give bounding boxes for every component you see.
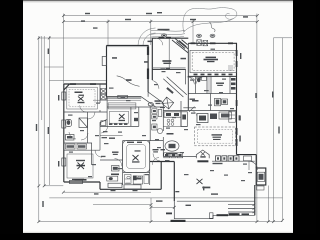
pantry corner diagonal bbox=[189, 107, 195, 112]
kitchen island bbox=[197, 114, 208, 123]
cooktop circles bbox=[167, 119, 174, 125]
bath fixtures left wing bbox=[66, 118, 88, 140]
partition x=210.5 lower bbox=[210, 94, 212, 111]
right dim vertical x=282.5 bbox=[282, 38, 284, 221]
lanai west wall x=188.3 bbox=[187, 43, 189, 110]
left wing top wall window chunks bbox=[70, 83, 76, 85]
bottom long dim y=221.6 bbox=[39, 221, 283, 223]
WIC below master bbox=[133, 176, 143, 184]
revision cloud curve bbox=[183, 8, 237, 33]
garage right wall hatch upper bbox=[147, 47, 149, 56]
foyer texts bbox=[155, 100, 162, 102]
garage S-leader bbox=[117, 76, 140, 87]
door arc master west bbox=[115, 159, 122, 167]
door arc sitting bbox=[153, 154, 160, 161]
partition x=207 bbox=[206, 76, 208, 93]
hall marks left of master bbox=[101, 126, 107, 133]
laundry fixtures bbox=[101, 89, 107, 100]
wall x=174.3 to patio bbox=[173, 162, 175, 202]
dim text at wall bbox=[175, 191, 179, 192]
garage bottom double wall line bbox=[107, 97, 142, 99]
patio door arc bbox=[249, 161, 258, 170]
label bubbles row bbox=[162, 34, 215, 38]
partition x=91.5 bbox=[91, 143, 93, 165]
entry porch bottom wall bbox=[152, 68, 185, 70]
patio steps lines bbox=[228, 204, 255, 206]
cloud bottom edge bbox=[184, 19, 234, 33]
patio fan X bbox=[197, 179, 203, 184]
garage text top bbox=[112, 57, 117, 59]
door arcs bath bbox=[69, 132, 76, 139]
texts left of master bbox=[112, 152, 119, 153]
master west wall bbox=[122, 141, 124, 185]
east closet fixtures column bbox=[231, 78, 236, 90]
sitting room east wall x=161.2 bbox=[160, 162, 162, 190]
wall y=93.5 bbox=[188, 93, 236, 95]
walk label bbox=[158, 29, 170, 31]
closet shelves bbox=[66, 144, 87, 149]
west wall left wing bbox=[63, 84, 65, 182]
porch dim y=67.8 bbox=[152, 67, 185, 69]
bar cabinets row bbox=[164, 153, 183, 158]
walk contour lines bbox=[151, 29, 185, 32]
window below bbq bbox=[257, 186, 265, 190]
extension x=150.8 bbox=[150, 20, 152, 46]
bottom dim y=192.2 bbox=[63, 191, 151, 193]
porch east wall x=185.6 bbox=[185, 69, 187, 84]
patio outline step bbox=[174, 201, 255, 219]
entry wall label bbox=[159, 37, 165, 39]
garage right wall hatch lower bbox=[147, 69, 149, 80]
left dim rung y=80.5 bbox=[49, 80, 106, 82]
BR2 east wall x=130.9 bbox=[130, 107, 132, 126]
bottom connector x=151 bbox=[150, 198, 152, 222]
step wall x=100 bbox=[99, 182, 101, 189]
entry porch top wall bbox=[152, 37, 188, 39]
closet blob right of BR2 bbox=[134, 118, 138, 121]
nook west wall bbox=[162, 137, 164, 157]
pantry bbox=[219, 112, 232, 119]
right dim header y=37.8 bbox=[274, 37, 293, 39]
garage top wall bbox=[107, 44, 149, 46]
pool bottom beam dashes bbox=[194, 74, 233, 76]
kitchen counter wall x=181 bbox=[180, 101, 182, 127]
porch texts bbox=[162, 60, 171, 62]
east wall slider hatches bbox=[236, 50, 238, 146]
bbq outcrop bbox=[256, 168, 266, 185]
porch inner door arc bbox=[156, 38, 163, 45]
driveway arcs bbox=[138, 28, 156, 46]
left wing top wall bbox=[64, 83, 107, 85]
left dim vertical x=38.8 bbox=[38, 36, 40, 222]
master east wall bbox=[149, 141, 151, 185]
water heater circle bbox=[157, 128, 162, 133]
bottom dim y=207.2 short bbox=[151, 206, 174, 208]
wall y=110.5 kitchen to east bbox=[163, 110, 236, 112]
patio east wall upper bbox=[255, 155, 257, 168]
cabinets east wall bbox=[229, 111, 236, 122]
right dim vertical x=273.5 bbox=[273, 38, 275, 222]
east wall (lanai+family) bbox=[236, 43, 238, 154]
linen blobs left of master bbox=[112, 166, 120, 172]
sitting room south wall y=161.5 bbox=[150, 161, 175, 163]
leader squiggle bbox=[210, 22, 216, 32]
vanity BA2 bbox=[107, 176, 118, 181]
pool double rectangle bbox=[190, 50, 236, 72]
patio slab line y=201.2 bbox=[177, 200, 255, 202]
patio floor line y=161.2 bbox=[212, 160, 255, 162]
partition x=230 bbox=[229, 76, 231, 93]
garage top wall inner line bbox=[107, 46, 149, 48]
BR2 west wall x=107.1 bbox=[106, 97, 108, 127]
patio east wall lower bbox=[254, 185, 256, 215]
BR2 north wall y=107 bbox=[107, 106, 163, 108]
lanai top wall bbox=[188, 42, 237, 44]
hall diagonal near garage bbox=[141, 97, 156, 108]
bbq bbox=[257, 172, 264, 181]
garage left wall bbox=[106, 45, 108, 96]
extension x=193 bbox=[192, 20, 194, 44]
porch east door arc bbox=[187, 77, 194, 84]
bath3 vanity bbox=[202, 77, 207, 81]
hall wall y=112 left wing bbox=[64, 111, 107, 113]
bath wall y=143 bbox=[64, 142, 92, 144]
garage south window bbox=[118, 95, 128, 98]
wall x=188.3 between foyer/family bbox=[187, 97, 189, 111]
porch west door arc bbox=[152, 81, 159, 89]
texts below pool bbox=[190, 99, 196, 100]
hall wall x=150.2 bbox=[149, 107, 151, 141]
entry chamfer door bay bbox=[172, 39, 188, 54]
bay window chamfer BR2 bbox=[100, 120, 107, 127]
nook bay pentagon bbox=[196, 150, 209, 158]
right dim vertical x=256.9 bbox=[256, 14, 258, 222]
foyer art niche X box bbox=[162, 97, 174, 109]
master south wall y=172.4 bbox=[123, 171, 150, 173]
BR4 label bbox=[216, 83, 224, 84]
pool steps corner bbox=[228, 66, 233, 70]
BR2 south wall y=126.4 bbox=[100, 125, 139, 127]
wall y=107.8 bbox=[183, 107, 196, 109]
left dim vertical x=44.2 bbox=[43, 36, 45, 186]
extension x=108 bbox=[107, 20, 109, 46]
BR3 ceiling + bed bbox=[67, 154, 93, 178]
partition x=195.5 bbox=[195, 76, 197, 93]
bottom dim y=185.8 bbox=[44, 185, 63, 187]
porch divider x=169 bbox=[168, 38, 170, 69]
dim texts bottom bbox=[94, 186, 218, 194]
bath partition x=87.5 bbox=[87, 112, 89, 143]
patio labels dark bbox=[217, 214, 229, 216]
top dim line 1 bbox=[64, 15, 258, 17]
west wall window BR1 bbox=[62, 92, 66, 100]
kitchen west wall x=163 bbox=[162, 103, 164, 131]
label bubble garage door bbox=[148, 103, 153, 106]
nook wall y=156.5 bbox=[163, 156, 196, 158]
partition x=211 bbox=[210, 76, 212, 93]
closet wall y=150 bbox=[64, 149, 100, 151]
BR3 window bottom bbox=[70, 180, 83, 183]
pool equipment bbox=[197, 40, 202, 46]
rotated dim text east bbox=[239, 136, 241, 142]
hall closets column bbox=[152, 109, 162, 130]
kitchen wall y=126.5 bbox=[163, 126, 187, 128]
hall door arcs bbox=[88, 112, 95, 119]
center bottom wall bbox=[100, 188, 161, 190]
lanai top wall hatches bbox=[191, 42, 234, 44]
left dim rung y=67 bbox=[44, 66, 63, 68]
pool text block bbox=[204, 57, 219, 63]
small rect right bbox=[244, 156, 252, 161]
door arcs below pool bbox=[190, 77, 196, 84]
laundry2 bbox=[215, 98, 221, 106]
entry porch left wall bbox=[151, 38, 153, 80]
rooms-below-pool south wall y=76.4 bbox=[188, 75, 236, 77]
door arc master east bbox=[152, 158, 159, 165]
nook bay X bbox=[201, 152, 205, 156]
garage door stripes bbox=[108, 103, 136, 109]
texts right of master bbox=[153, 149, 159, 150]
left dim vertical x=49.3 bbox=[48, 36, 50, 185]
garage bottom wall bbox=[107, 96, 142, 98]
bottom dim y=197.9 bbox=[49, 197, 282, 199]
BR1 ceiling + fan bbox=[67, 87, 98, 109]
left wing bottom wall bbox=[64, 181, 100, 183]
scattered tiny annotation specks bbox=[68, 72, 252, 181]
wic south wall y=185? bbox=[100, 159, 123, 161]
texts above bottom wall bbox=[75, 179, 87, 181]
tilted hall label bbox=[166, 87, 173, 94]
master north wall y=140.6 bbox=[123, 140, 164, 142]
bath3 toilet bbox=[197, 78, 200, 82]
patio columns bbox=[216, 156, 240, 161]
hall x=150 bbox=[147, 69, 149, 97]
east jog wall bbox=[237, 154, 257, 156]
top dim line 2 bbox=[64, 21, 258, 23]
closet shelves x=207-211 bbox=[208, 76, 210, 93]
west wall window bath bbox=[62, 120, 66, 128]
bay window small rects bbox=[101, 121, 106, 126]
foyer diagonal gallery walls bbox=[141, 77, 187, 108]
garage window bump left bbox=[102, 57, 106, 66]
left wing corner chamfer bbox=[64, 84, 70, 90]
setback line y=38 bbox=[39, 37, 153, 39]
bottom dim y=204.7 bbox=[93, 204, 151, 206]
hall closet x=138.8 bbox=[138, 107, 140, 126]
right dim vertical x=268.3 bbox=[267, 186, 269, 222]
laundry west wall x=100 bbox=[99, 84, 101, 103]
garage right wall bbox=[147, 45, 149, 92]
dim tick marks bbox=[37, 14, 284, 223]
BR2 dashed seat row bbox=[109, 123, 127, 125]
patio dim texts bbox=[213, 163, 223, 164]
extension x=63.5 bbox=[63, 14, 65, 85]
left dim vertical x=41.8 bbox=[41, 36, 43, 120]
